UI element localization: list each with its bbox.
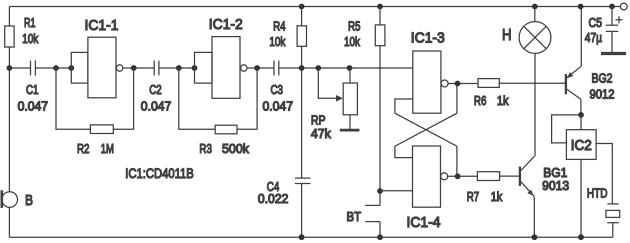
wire: IC2 bottom pin to ground rail [580, 159, 582, 237]
node: IC1-2 output [254, 65, 260, 71]
capacitor C5 [609, 4, 615, 10]
wire: R7 to BG1 base [500, 175, 520, 177]
lamp H [532, 4, 538, 10]
resistor R5 [377, 4, 383, 10]
svg-text:10k: 10k [269, 34, 285, 49]
node: R3 feedback tap [176, 65, 182, 71]
potentiometer RP [349, 68, 351, 83]
wire: RP wiper arm with arrow [318, 68, 336, 98]
resistor R2 [56, 68, 90, 129]
wire: trigger node to IC1-4 input [380, 190, 413, 192]
svg-text:R5: R5 [348, 18, 361, 33]
svg-text:9013: 9013 [542, 178, 569, 193]
capacitor C4 [301, 68, 303, 178]
svg-text:BG2: BG2 [592, 71, 613, 86]
svg-text:0.047: 0.047 [18, 99, 48, 114]
svg-text:H: H [502, 27, 512, 44]
wire: IC1-3 output [448, 83, 478, 85]
switch BT (push button) [365, 204, 380, 206]
node: IC1-1 output [131, 65, 137, 71]
transistor BG1 (9013 NPN) [519, 167, 521, 187]
node: trigger node (R5/BT/IC1-4 input) [377, 188, 383, 194]
ground: RP bottom bar [340, 129, 360, 132]
wire: top supply rail [9, 6, 620, 8]
wire: lamp to BG1 collector [534, 53, 536, 156]
node: IC2 ground [578, 234, 584, 240]
svg-text:IC2: IC2 [571, 138, 592, 154]
capacitor C2 [153, 61, 155, 76]
node: C4 at ground rail [299, 234, 305, 240]
terminal: positive supply [620, 3, 627, 10]
svg-text:500k: 500k [222, 141, 249, 156]
resistor R3 [179, 68, 215, 129]
svg-text:IC1-1: IC1-1 [85, 18, 119, 34]
svg-text:IC1:CD4011B: IC1:CD4011B [125, 165, 194, 181]
resistor R6 [478, 79, 499, 88]
wire: IC1-3 lower input hook [395, 99, 413, 113]
wire: mic to bottom rail [8, 207, 10, 237]
node: RP top tap [347, 65, 353, 71]
svg-text:0.047: 0.047 [263, 99, 294, 114]
node: R4 bottom / C4 [299, 65, 305, 71]
svg-text:R4: R4 [273, 18, 286, 33]
node: IC1-2 input [192, 65, 198, 71]
label C5 polarity + [616, 16, 623, 23]
svg-text:R1: R1 [24, 15, 36, 30]
svg-text:C1: C1 [26, 82, 39, 97]
svg-text:IC1-4: IC1-4 [407, 215, 441, 231]
svg-text:9012: 9012 [590, 87, 615, 102]
svg-text:R6: R6 [474, 93, 487, 108]
node: BG2 emitter at top rail [578, 4, 584, 10]
svg-text:R7: R7 [467, 189, 480, 204]
transistor BG2 (9012 PNP) [565, 74, 567, 94]
svg-text:0.047: 0.047 [141, 99, 172, 114]
svg-text:47µ: 47µ [585, 30, 603, 45]
svg-text:BT: BT [347, 209, 362, 224]
svg-text:C2: C2 [149, 82, 162, 97]
wire: IC2 left feed loop [552, 115, 581, 143]
node: IC1-1 input [68, 65, 74, 71]
node: IC1-4 output [455, 173, 461, 179]
svg-text:B: B [25, 192, 33, 209]
wire: IC2 right pin to HTD [596, 144, 612, 204]
wire: IC2 top pin [580, 115, 582, 130]
resistor R4 [299, 4, 305, 10]
wire: left rail to microphone [8, 68, 10, 192]
resistor R7 [477, 172, 499, 181]
gate IC1-4 (CD4011B NAND, RS latch) [413, 146, 441, 207]
wire: left rail top segment [8, 7, 10, 27]
wire: bottom ground rail [9, 236, 612, 238]
node: IC1-3 output [455, 81, 461, 87]
svg-text:1k: 1k [491, 189, 503, 204]
svg-text:R2: R2 [77, 141, 90, 156]
svg-text:1M: 1M [101, 141, 114, 156]
node: input node (R1/C1/mic) [6, 65, 12, 71]
wire: R6 to BG2 base [499, 82, 565, 84]
node: BG2 collector / IC2 supply [578, 112, 584, 118]
wire: cross-couple IC1-4 out to IC1-3 in [395, 113, 457, 176]
microphone B (sound pickup) [2, 192, 18, 208]
svg-text:1k: 1k [497, 93, 509, 108]
svg-text:HTD: HTD [587, 186, 608, 201]
node: R2 feedback tap [53, 65, 59, 71]
wire: cross-couple IC1-3 out to IC1-4 in [395, 84, 457, 158]
svg-text:0.022: 0.022 [258, 191, 289, 206]
gate IC1-3 (CD4011B NAND, RS latch) [413, 51, 441, 113]
resistor R1 [5, 26, 14, 47]
svg-text:C5: C5 [589, 15, 603, 30]
node: BT at ground rail [377, 234, 383, 240]
wire: IC1-4 output [448, 175, 478, 177]
gate IC1-1 (CD4011B NAND, inputs tied) [71, 52, 88, 83]
node: BG1 emitter at ground rail [532, 234, 538, 240]
wire: IC1-2 output [247, 67, 274, 69]
svg-text:47k: 47k [311, 126, 331, 141]
svg-text:C3: C3 [271, 82, 284, 97]
ground: C5 ground bar [601, 52, 626, 55]
wire: IC1-1 output [123, 67, 154, 69]
gate IC1-2 (CD4011B NAND, inputs tied) [195, 52, 213, 83]
capacitor C3 [273, 61, 275, 76]
wire: R1 bottom lead [8, 47, 10, 68]
capacitor C1 [9, 67, 30, 69]
node: RP wiper tap [315, 65, 321, 71]
buzzer HTD (piezo sounder) [607, 203, 618, 205]
svg-text:10k: 10k [344, 34, 360, 49]
svg-text:R3: R3 [199, 141, 212, 156]
svg-text:IC1-3: IC1-3 [411, 30, 445, 46]
svg-text:IC1-2: IC1-2 [209, 17, 243, 33]
IC2 (music chip) box [566, 130, 596, 160]
svg-text:10k: 10k [22, 31, 38, 46]
